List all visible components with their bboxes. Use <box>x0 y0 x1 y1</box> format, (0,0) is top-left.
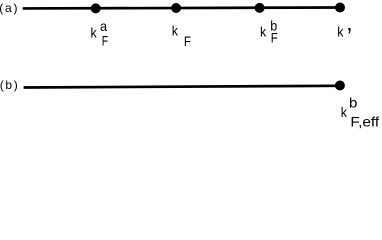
svg-text:F: F <box>184 33 191 49</box>
node dot 2 on line (a) <box>171 3 181 13</box>
svg-text:F: F <box>102 32 108 48</box>
svg-text:k: k <box>172 22 179 38</box>
svg-text:(a): (a) <box>0 1 19 15</box>
node dot at right end of line (b) <box>335 81 345 91</box>
svg-text:k: k <box>91 24 98 40</box>
wire: energy level line (a) <box>23 6 340 10</box>
svg-text:F: F <box>271 29 278 45</box>
node dot 4 at right end of line (a) <box>335 3 345 13</box>
svg-text:(b): (b) <box>0 78 19 92</box>
wire: energy level line (b) <box>24 86 340 88</box>
svg-text:k: k <box>260 24 267 40</box>
node dot 1 on line (a) <box>91 3 101 13</box>
svg-text:k: k <box>341 104 348 120</box>
svg-text:’: ’ <box>347 23 352 50</box>
svg-text:F,eff: F,eff <box>350 114 379 130</box>
svg-text:k: k <box>337 24 344 40</box>
svg-text:b: b <box>349 94 358 110</box>
node dot 3 on line (a) <box>255 3 265 13</box>
